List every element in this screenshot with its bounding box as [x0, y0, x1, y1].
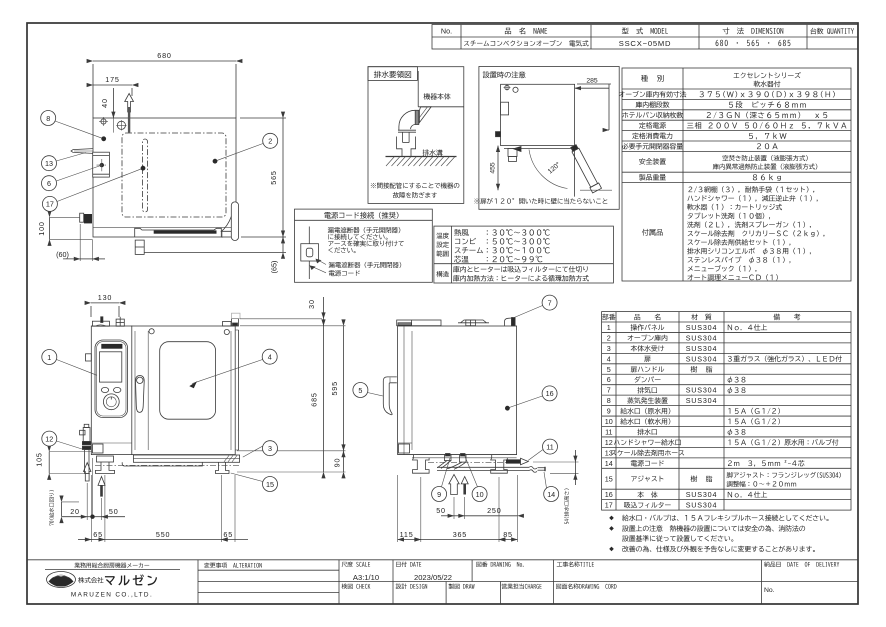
- svg-text:50: 50: [109, 507, 119, 516]
- svg-text:MARUZEN CO.,LTD.: MARUZEN CO.,LTD.: [71, 592, 153, 599]
- svg-text:16: 16: [546, 389, 554, 398]
- svg-text:595: 595: [330, 381, 339, 395]
- svg-text:5: 5: [607, 365, 611, 374]
- svg-text:SUS304: SUS304: [686, 386, 718, 395]
- svg-text:6: 6: [47, 179, 51, 188]
- svg-text:250: 250: [487, 506, 501, 515]
- svg-text:680: 680: [157, 51, 171, 60]
- svg-text:50: 50: [436, 506, 446, 515]
- svg-text:4: 4: [268, 353, 272, 362]
- svg-text:175: 175: [105, 75, 119, 84]
- svg-text:1: 1: [47, 353, 51, 362]
- svg-text:12: 12: [45, 434, 53, 443]
- svg-text:285: 285: [586, 78, 598, 85]
- svg-text:9: 9: [607, 407, 611, 416]
- svg-text:13: 13: [605, 448, 613, 457]
- svg-text:15: 15: [605, 474, 613, 483]
- svg-text:105: 105: [35, 452, 44, 466]
- svg-text:15: 15: [266, 480, 274, 489]
- svg-text:17: 17: [605, 501, 613, 510]
- svg-text:SUS304: SUS304: [686, 501, 718, 510]
- svg-text:3: 3: [268, 444, 272, 453]
- svg-text:40: 40: [100, 98, 109, 108]
- svg-text:10: 10: [476, 490, 484, 499]
- svg-text:565: 565: [269, 170, 278, 184]
- svg-text:14: 14: [547, 490, 555, 499]
- svg-text:1: 1: [607, 323, 611, 332]
- svg-text:2023/05/22: 2023/05/22: [414, 573, 452, 582]
- svg-text:4: 4: [607, 354, 611, 363]
- svg-text:685: 685: [310, 392, 319, 406]
- svg-text:2: 2: [268, 137, 272, 146]
- svg-text:3: 3: [607, 344, 611, 353]
- svg-text:130: 130: [98, 293, 112, 302]
- svg-text:65: 65: [93, 530, 103, 539]
- svg-text:SSCX−05MD: SSCX−05MD: [619, 39, 672, 48]
- svg-text:SUS304: SUS304: [686, 333, 718, 342]
- svg-text:No.: No.: [764, 587, 775, 594]
- svg-text:365: 365: [453, 530, 467, 539]
- svg-text:SUS304: SUS304: [686, 344, 718, 353]
- svg-text:(60): (60): [56, 250, 69, 259]
- svg-text:30: 30: [307, 299, 316, 309]
- svg-text:16: 16: [605, 490, 613, 499]
- svg-text:SUS304: SUS304: [686, 396, 718, 405]
- svg-text:8: 8: [46, 114, 50, 123]
- svg-text:SUS304: SUS304: [686, 490, 718, 499]
- svg-text:5: 5: [358, 386, 362, 395]
- svg-text:2: 2: [607, 333, 611, 342]
- svg-text:SUS304: SUS304: [686, 323, 718, 332]
- svg-text:No.: No.: [441, 27, 452, 36]
- svg-text:SUS304: SUS304: [686, 354, 718, 363]
- svg-text:7: 7: [548, 298, 552, 307]
- svg-text:12: 12: [605, 438, 613, 447]
- svg-text:10: 10: [605, 417, 613, 426]
- svg-text:100: 100: [37, 221, 46, 235]
- svg-text:11: 11: [605, 428, 612, 437]
- svg-text:A3:1/10: A3:1/10: [353, 573, 379, 582]
- svg-text:90: 90: [333, 458, 342, 468]
- svg-text:65: 65: [223, 530, 233, 539]
- svg-text:9: 9: [437, 490, 441, 499]
- svg-text:8: 8: [607, 396, 611, 405]
- svg-text:455: 455: [490, 162, 497, 174]
- svg-text:(65): (65): [270, 261, 279, 274]
- svg-text:13: 13: [45, 159, 53, 168]
- svg-text:6: 6: [607, 375, 611, 384]
- svg-text:115: 115: [400, 530, 414, 539]
- svg-text:85: 85: [503, 530, 513, 539]
- svg-text:11: 11: [546, 442, 553, 451]
- svg-text:550: 550: [156, 530, 170, 539]
- svg-text:120°: 120°: [546, 160, 562, 175]
- svg-text:14: 14: [605, 459, 613, 468]
- svg-text:17: 17: [46, 200, 54, 209]
- svg-text:20: 20: [70, 507, 80, 516]
- svg-text:7: 7: [607, 386, 611, 395]
